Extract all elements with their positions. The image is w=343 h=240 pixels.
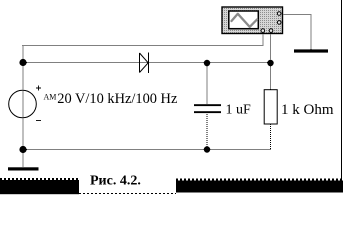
diode D1: [140, 53, 149, 74]
wire top horizontal: [23, 45, 264, 47]
bottom black bar left segment: [0, 180, 79, 194]
oscilloscope waveform: [232, 14, 258, 27]
ground right (scope): [294, 49, 328, 52]
node junction dot capacitor bottom: [204, 146, 210, 152]
oscilloscope terminal right top: [277, 12, 281, 16]
caption box: [79, 173, 176, 194]
wire diode line: [23, 62, 271, 64]
wire to resistor top: [270, 63, 272, 91]
node junction dot resistor top: [267, 60, 273, 66]
oscilloscope terminal B: [269, 29, 273, 33]
wire capacitor top lead: [206, 63, 208, 106]
svg-text:AM: AM: [44, 93, 57, 102]
wire resistor bottom: [270, 124, 272, 150]
source polarity plus: [36, 86, 41, 91]
svg-text:20 V/10 kHz/100 Hz: 20 V/10 kHz/100 Hz: [57, 91, 177, 107]
wire left vertical: [22, 46, 24, 150]
oscilloscope screen: [229, 11, 258, 29]
oscilloscope body: [222, 7, 283, 34]
ground left: [8, 167, 39, 170]
frame right border: [341, 0, 343, 181]
wire bottom horizontal: [23, 149, 272, 151]
wire scope terminal A drop: [262, 34, 264, 47]
bottom black bar right segment: [176, 181, 343, 193]
oscilloscope terminal A: [261, 29, 265, 33]
node junction dot left bottom: [19, 146, 26, 153]
source V1 circle: [9, 90, 37, 118]
capacitor C1 plates: [194, 104, 221, 106]
wire scope to ground: [283, 14, 312, 16]
wire ground stub left: [22, 150, 24, 169]
oscilloscope terminal right bottom: [277, 21, 281, 25]
wire capacitor bottom lead: [206, 112, 208, 150]
svg-text:1 k Ohm: 1 k Ohm: [281, 102, 334, 118]
source polarity minus: [36, 120, 41, 122]
svg-text:1 uF: 1 uF: [226, 103, 252, 118]
node junction dot left diode line: [19, 59, 26, 66]
resistor R1: [264, 90, 277, 124]
svg-text:Рис. 4.2.: Рис. 4.2.: [90, 174, 141, 189]
wire scope terminal B drop: [270, 34, 272, 63]
node junction dot capacitor top: [204, 60, 210, 66]
